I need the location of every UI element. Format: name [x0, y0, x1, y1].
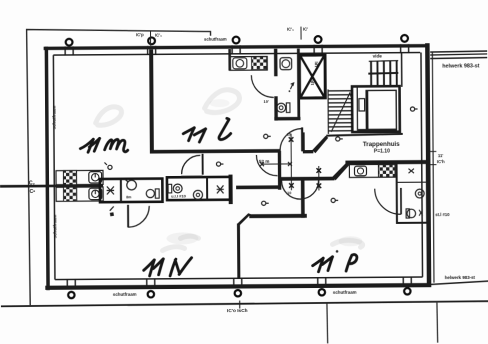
svg-text:schutfraam: schutfraam — [113, 292, 137, 297]
svg-text:lift: lift — [314, 61, 319, 67]
svg-text:schutfraam: schutfraam — [333, 290, 357, 295]
svg-text:11': 11' — [438, 153, 443, 158]
svg-text:st.l #10: st.l #10 — [435, 212, 450, 217]
svg-text:schutfraam: schutfraam — [52, 215, 57, 239]
svg-text:helwerk 983-st: helwerk 983-st — [442, 63, 479, 69]
svg-text:IC'h: IC'h — [437, 159, 445, 164]
svg-text:Trappenhuis: Trappenhuis — [363, 141, 400, 148]
svg-text:10': 10' — [263, 99, 268, 104]
svg-text:helwerk 983-st: helwerk 983-st — [445, 275, 476, 280]
svg-text:10: 10 — [287, 133, 291, 137]
svg-text:C₂: C₂ — [29, 180, 35, 186]
svg-text:IC'₁: IC'₁ — [155, 33, 162, 38]
svg-text:vide: vide — [373, 53, 383, 58]
svg-text:P=1.10: P=1.10 — [374, 148, 390, 154]
svg-text:C•: C• — [30, 189, 36, 195]
svg-text:8m: 8m — [126, 195, 131, 199]
svg-text:IC': IC' — [303, 27, 308, 32]
svg-text:IC'o IsCh: IC'o IsCh — [227, 308, 248, 314]
svg-text:u.l.l #10: u.l.l #10 — [171, 194, 186, 199]
svg-text:schutfraam: schutfraam — [52, 106, 57, 130]
svg-text:52 m: 52 m — [259, 159, 270, 164]
svg-text:IC'p: IC'p — [136, 32, 144, 37]
svg-text:schutfraam: schutfraam — [204, 36, 227, 41]
svg-text:IC'₁: IC'₁ — [287, 27, 294, 32]
svg-text:lift: lift — [310, 80, 315, 86]
svg-text:10: 10 — [287, 191, 291, 195]
